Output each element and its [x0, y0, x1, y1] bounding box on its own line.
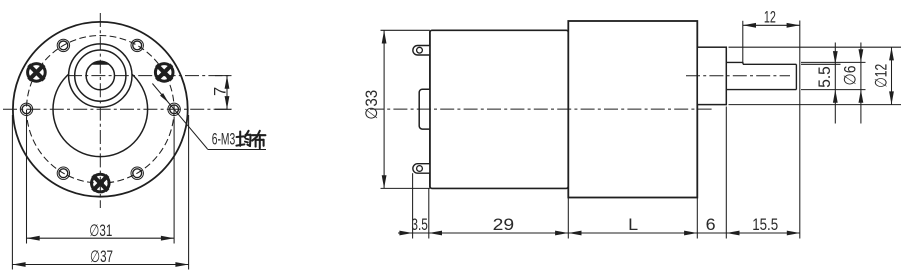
- svg-text:6: 6: [706, 216, 716, 234]
- svg-text:∅6: ∅6: [841, 66, 859, 86]
- svg-text:∅12: ∅12: [873, 64, 891, 88]
- svg-text:∅31: ∅31: [89, 222, 112, 240]
- svg-text:12: 12: [764, 8, 776, 26]
- svg-text:3.5: 3.5: [411, 216, 428, 234]
- svg-text:29: 29: [493, 216, 515, 234]
- svg-text:7: 7: [211, 87, 229, 96]
- svg-text:∅37: ∅37: [90, 248, 113, 266]
- svg-text:15.5: 15.5: [752, 216, 778, 234]
- svg-text:5.5: 5.5: [816, 66, 834, 88]
- svg-text:L: L: [628, 216, 638, 234]
- svg-text:6-M3: 6-M3: [212, 131, 236, 149]
- svg-text:∅33: ∅33: [363, 90, 381, 120]
